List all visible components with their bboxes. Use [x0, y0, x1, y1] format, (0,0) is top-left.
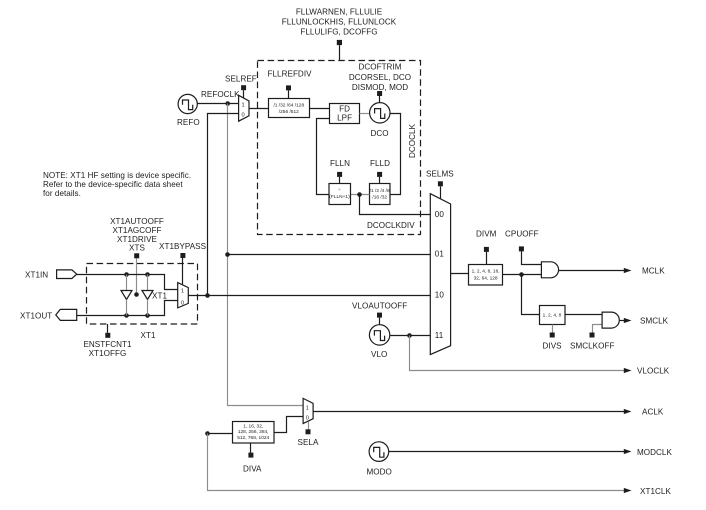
divider DIVA — [233, 422, 275, 444]
wire REFOCLK down branch — [225, 104, 303, 406]
svg-text:DISMOD, MOD: DISMOD, MOD — [352, 83, 408, 92]
oscillator DCO — [370, 103, 390, 123]
svg-text:FLLD: FLLD — [370, 159, 390, 168]
svg-text:NOTE: XT1 HF setting is device: NOTE: XT1 HF setting is device specific. — [43, 171, 191, 180]
svg-text:/16 /32: /16 /32 — [372, 194, 387, 200]
svg-text:32, 64, 128: 32, 64, 128 — [474, 276, 498, 282]
arrow ACLK — [624, 409, 632, 414]
svg-text:DIVS: DIVS — [543, 342, 563, 351]
wire FD/LPF to DCO — [360, 113, 370, 115]
divider DIVM — [469, 265, 503, 286]
svg-text:/1 /32 /64 /128: /1 /32 /64 /128 — [273, 102, 304, 108]
arrow MCLK — [624, 268, 632, 273]
svg-text:VLOCLK: VLOCLK — [637, 367, 670, 376]
svg-text:512, 768, 1024: 512, 768, 1024 — [237, 435, 269, 441]
svg-text:/256 /512: /256 /512 — [279, 109, 299, 115]
buffer XT1 HF — [142, 275, 153, 316]
control point FLLREFDIV — [286, 85, 291, 98]
control point FLLD — [377, 172, 382, 184]
pin XT1IN — [25, 270, 77, 280]
control point SELA — [306, 422, 311, 435]
wire FLLD to FLLN junction — [351, 192, 370, 197]
oscillator VLO — [369, 325, 389, 345]
svg-text:XT1AUTOOFF: XT1AUTOOFF — [110, 217, 164, 226]
control point DIVA — [248, 443, 253, 458]
control point SMCLKOFF — [590, 325, 603, 338]
svg-text:DCORSEL, DCO: DCORSEL, DCO — [349, 73, 411, 82]
pin XT1OUT — [20, 309, 77, 320]
svg-text:SELREF: SELREF — [225, 75, 257, 84]
svg-text:/1 /2 /4 /8: /1 /2 /4 /8 — [370, 188, 390, 194]
control point DIVM — [484, 247, 489, 265]
svg-text:XT1CLK: XT1CLK — [640, 487, 671, 496]
svg-text:FD: FD — [339, 104, 350, 113]
control point SELREF — [241, 85, 246, 98]
svg-text:FLLWARNEN, FLLULIE: FLLWARNEN, FLLULIE — [296, 8, 383, 17]
oscillator REFO — [178, 94, 197, 113]
svg-text:DCOCLKDIV: DCOCLKDIV — [367, 221, 415, 230]
svg-text:1: 1 — [242, 102, 245, 108]
svg-text:Refer to the device-specific d: Refer to the device-specific data sheet — [43, 180, 183, 189]
svg-text:10: 10 — [435, 291, 445, 300]
wire REFOCLK — [197, 101, 238, 106]
wire DIVA to SELA 0 — [275, 417, 304, 433]
control point VLOAUTOOFF — [377, 313, 382, 325]
svg-text:00: 00 — [435, 210, 445, 219]
wire XT1CLK output — [208, 434, 625, 491]
wire DIVM to MCLK gate — [503, 272, 542, 277]
control point CPUOFF — [519, 246, 542, 264]
control point ENSTFCNT1 — [105, 324, 110, 338]
svg-text:XT1AGCOFF: XT1AGCOFF — [112, 226, 161, 235]
svg-text:MCLK: MCLK — [642, 266, 665, 275]
signal labels DCOFTRIM block — [349, 63, 411, 93]
wire XT1OUT rail — [77, 301, 178, 318]
svg-text:MODO: MODO — [367, 468, 392, 477]
divider FLLD — [370, 184, 391, 205]
oscillator MODO — [369, 442, 389, 462]
svg-text:ENSTFCNT1: ENSTFCNT1 — [83, 340, 132, 349]
svg-text:LPF: LPF — [337, 113, 352, 122]
block FD/LPF U-FLL — [330, 104, 360, 124]
divider FLLN — [329, 184, 351, 205]
wire MODCLK — [389, 451, 625, 453]
svg-text:FLLULIFG, DCOFFG: FLLULIFG, DCOFFG — [300, 28, 377, 37]
signal labels ENSTFCNT1 block — [83, 340, 132, 358]
svg-text:XT1BYPASS: XT1BYPASS — [159, 242, 207, 251]
svg-text:1, 16, 32,: 1, 16, 32, — [243, 424, 263, 430]
control point DIVS — [550, 325, 555, 338]
mux XT1BYPASS — [178, 283, 189, 308]
control point DCO — [377, 91, 382, 103]
svg-text:XT1IN: XT1IN — [25, 271, 48, 280]
svg-text:VLO: VLO — [371, 350, 387, 359]
wire REFOCLK to SELMS 01 — [228, 254, 431, 256]
gate AND SMCLK — [602, 312, 619, 328]
svg-text:SMCLKOFF: SMCLKOFF — [570, 342, 614, 351]
arrow MODCLK — [624, 449, 632, 454]
FLL dashed box — [258, 61, 421, 235]
XT1 dashed box — [87, 264, 198, 325]
svg-text:SELMS: SELMS — [426, 170, 454, 179]
svg-text:01: 01 — [435, 250, 445, 259]
wire SMCLK — [619, 320, 625, 322]
svg-text:for details.: for details. — [43, 189, 81, 198]
svg-text:DCO: DCO — [371, 129, 389, 138]
svg-text:11: 11 — [435, 331, 444, 340]
control point SELMS — [438, 181, 443, 199]
wire SELMS output to DIVM — [451, 273, 469, 275]
divider DIVS — [540, 306, 566, 325]
wire DIVS to SMCLK gate — [565, 314, 603, 316]
control point FLLN — [337, 172, 342, 184]
wire XT1IN rail — [77, 272, 178, 289]
wire CPUOFF branch to DIVS — [522, 275, 540, 315]
svg-text:VLOAUTOOFF: VLOAUTOOFF — [352, 302, 407, 311]
wire ACLK — [313, 411, 625, 413]
svg-text:XT1OUT: XT1OUT — [20, 312, 52, 321]
svg-text:REFO: REFO — [177, 118, 200, 127]
svg-text:DCOFTRIM: DCOFTRIM — [358, 63, 401, 72]
svg-text:1, 2, 4, 8: 1, 2, 4, 8 — [543, 313, 562, 319]
signal labels FLLWARNEN block — [282, 8, 397, 37]
svg-text:1, 2, 4, 8, 16,: 1, 2, 4, 8, 16, — [472, 269, 500, 275]
svg-text:XT1: XT1 — [141, 331, 156, 340]
mux SELREF — [239, 95, 249, 121]
wire DCOCLKDIV to SELMS 00 — [360, 195, 431, 215]
svg-text:1: 1 — [306, 405, 309, 411]
divider FLLREFDIV — [269, 99, 310, 118]
control point XTS — [134, 253, 139, 297]
note text — [43, 171, 191, 198]
wire FLL feedback — [317, 119, 330, 195]
control point FLLWARNEN — [337, 40, 342, 61]
arrow SMCLK — [624, 318, 632, 323]
svg-text:1: 1 — [181, 289, 184, 295]
svg-text:DCOCLK: DCOCLK — [408, 123, 417, 158]
mux SELA — [303, 398, 313, 423]
wire VLO to SELMS 11 — [390, 333, 431, 338]
svg-text:SELA: SELA — [298, 438, 319, 447]
wire DCOCLK — [390, 114, 401, 195]
svg-text:FLLREFDIV: FLLREFDIV — [268, 70, 313, 79]
svg-text:MODCLK: MODCLK — [637, 448, 672, 457]
svg-text:FLLN: FLLN — [330, 159, 350, 168]
wire FLLREFDIV to FD/LPF — [310, 108, 330, 110]
wire VLOCLK — [410, 336, 625, 371]
gate AND MCLK — [541, 262, 558, 278]
svg-text:REFOCLK: REFOCLK — [201, 90, 240, 99]
svg-text:÷: ÷ — [338, 188, 341, 193]
buffer XT1 LF — [121, 275, 132, 316]
svg-text:CPUOFF: CPUOFF — [505, 230, 539, 239]
svg-text:XTS: XTS — [129, 244, 145, 253]
wire SELREF output to FLLREFDIV — [249, 108, 269, 110]
svg-text:0: 0 — [181, 300, 184, 306]
svg-text:ACLK: ACLK — [642, 408, 664, 417]
svg-text:DIVA: DIVA — [243, 465, 262, 474]
wire XT1CLK to SELREF 0 — [208, 114, 239, 296]
arrow VLOCLK — [624, 368, 632, 373]
signal labels XT1 control block — [110, 217, 164, 253]
svg-text:(FLLN+1): (FLLN+1) — [329, 194, 350, 200]
control point XT1BYPASS — [180, 253, 185, 284]
wire MCLK — [559, 270, 625, 272]
svg-text:XT1OFFG: XT1OFFG — [89, 349, 127, 358]
svg-text:128, 256, 384,: 128, 256, 384, — [238, 429, 269, 435]
wire DIVA input — [205, 431, 232, 436]
wire XT1CLK trunk — [188, 293, 430, 298]
mux SELMS — [430, 194, 450, 355]
svg-text:DIVM: DIVM — [476, 230, 497, 239]
svg-text:FLLUNLOCKHIS, FLLUNLOCK: FLLUNLOCKHIS, FLLUNLOCK — [282, 18, 397, 27]
svg-text:0: 0 — [242, 113, 245, 119]
svg-text:0: 0 — [306, 416, 309, 422]
svg-text:XT1: XT1 — [152, 292, 167, 301]
arrow XT1CLK — [624, 488, 632, 493]
svg-text:SMCLK: SMCLK — [640, 317, 669, 326]
